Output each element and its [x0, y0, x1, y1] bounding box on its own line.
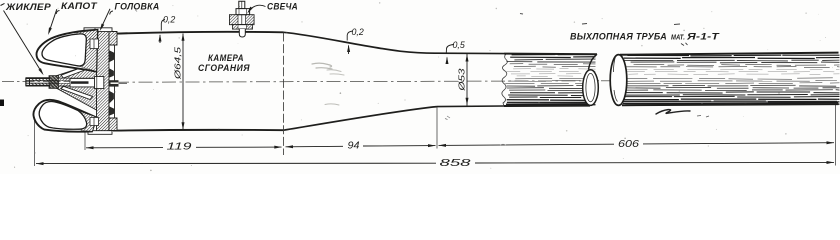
svg-text:Ø53: Ø53 [457, 68, 467, 92]
svg-text:94: 94 [348, 140, 361, 151]
svg-text:Я-1-Т: Я-1-Т [686, 31, 720, 41]
svg-text:858: 858 [440, 157, 471, 169]
svg-text:МАТ.: МАТ. [671, 34, 685, 41]
svg-text:0,5: 0,5 [453, 40, 465, 50]
svg-text:ГОЛОВКА: ГОЛОВКА [115, 2, 160, 12]
svg-text:606: 606 [618, 139, 640, 150]
svg-text:СГОРАНИЯ: СГОРАНИЯ [198, 63, 250, 73]
svg-text:СВЕЧА: СВЕЧА [267, 1, 298, 11]
svg-text:ВЫХЛОПНАЯ ТРУБА: ВЫХЛОПНАЯ ТРУБА [570, 31, 667, 41]
svg-text:КАМЕРА: КАМЕРА [208, 53, 244, 63]
svg-text:Ø64,5: Ø64,5 [173, 47, 183, 81]
svg-text:119: 119 [167, 142, 193, 153]
svg-text:КАПОТ: КАПОТ [61, 1, 98, 11]
svg-text:0,2: 0,2 [352, 27, 364, 37]
svg-text:ЖИКЛЕР: ЖИКЛЕР [5, 2, 52, 12]
